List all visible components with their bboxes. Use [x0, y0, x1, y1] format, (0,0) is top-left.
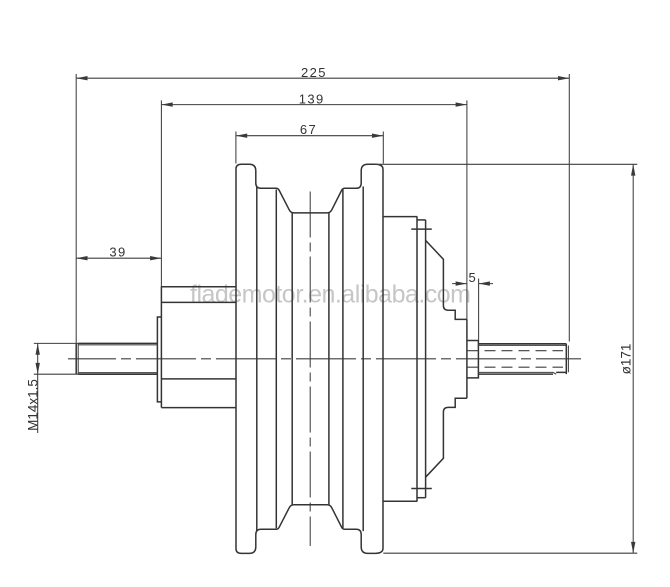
motor bottom step [417, 497, 425, 499]
motor cover joint vertical [416, 217, 418, 502]
left boss top edge [161, 286, 236, 288]
left boss bottom step [161, 378, 236, 380]
svg-text:M14x1.5: M14x1.5 [26, 379, 41, 431]
dimension M14x1.5 [26, 343, 80, 433]
horizontal axle centerline [68, 358, 581, 360]
right axle thread root bottom [478, 372, 556, 374]
svg-text:39: 39 [109, 244, 126, 259]
rim hump vertical left [275, 190, 277, 529]
left axle thread root bottom [78, 372, 157, 374]
dimension 67 [236, 122, 383, 163]
right axle thread root top [478, 344, 566, 346]
svg-text:67: 67 [300, 122, 317, 137]
motor cover cone and hub top [426, 240, 467, 319]
left axle thread crest bottom [78, 373, 157, 375]
right axle thread crest bottom [478, 372, 566, 374]
right axle end chamfer [567, 346, 569, 373]
rim well vertical left [291, 213, 293, 505]
axle shoulder ring [467, 341, 479, 378]
motor top step [417, 219, 425, 221]
motor step vertical [425, 220, 427, 498]
svg-text:225: 225 [301, 65, 327, 80]
svg-text:5: 5 [468, 270, 477, 285]
axle cable hole hidden line bottom [468, 366, 564, 368]
svg-text:139: 139 [299, 91, 325, 106]
motor cover cone and hub bottom [426, 398, 467, 477]
spoke hole tick top [411, 228, 432, 230]
dimension 5 [452, 270, 493, 340]
dimension 225 [76, 65, 569, 343]
left cover boss face [160, 286, 162, 407]
motor right face [466, 319, 468, 398]
axle cable hole hidden line top [468, 350, 564, 352]
svg-text:flademotor.en.alibaba.com: flademotor.en.alibaba.com [190, 280, 471, 308]
dimension 39 [76, 244, 161, 260]
rim bead seat vertical left [256, 187, 258, 532]
dimension 139 [161, 91, 467, 319]
spoke hole tick bottom [411, 488, 432, 490]
svg-text:ø171: ø171 [619, 344, 634, 375]
right axle thread crest top [478, 343, 566, 345]
vertical rim centerline [309, 192, 311, 547]
left axle end face [75, 343, 77, 374]
right axle end face [565, 344, 567, 374]
rim well vertical right [328, 213, 330, 505]
left axle end chamfer [77, 343, 79, 374]
dimension diameter 171 [375, 164, 637, 553]
left boss bottom edge [161, 407, 236, 409]
motor top edge [383, 216, 417, 218]
left axle thread root top [78, 344, 157, 346]
left axle washer plate [157, 317, 161, 402]
rim hump vertical right [342, 190, 344, 529]
rim outline [236, 164, 383, 553]
motor bottom edge [383, 500, 417, 502]
left boss top step [161, 301, 236, 303]
rim bead seat vertical right [362, 187, 364, 532]
left axle thread crest top [78, 342, 157, 344]
